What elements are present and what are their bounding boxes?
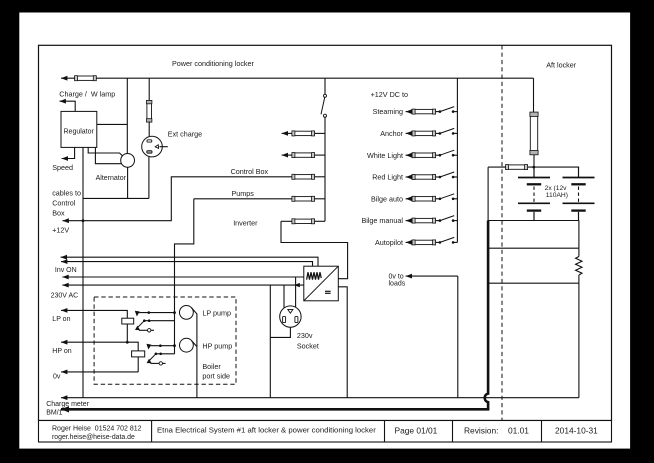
wire: shunt top link [578, 221, 580, 249]
svg-text:Steaming: Steaming [373, 107, 403, 116]
svg-text:HP on: HP on [52, 348, 71, 355]
svg-text:Control Box: Control Box [231, 167, 269, 176]
node: LP pump junction [173, 311, 176, 314]
fuse: battery main [530, 112, 537, 154]
svg-text:230v: 230v [297, 331, 313, 340]
title block grid [39, 421, 612, 443]
arrow: Autopilot [406, 240, 412, 245]
wire: charge lamp [60, 101, 76, 111]
svg-text:roger.heise@heise-data.de: roger.heise@heise-data.de [52, 434, 135, 441]
wire: regulator +12V drop [82, 147, 84, 397]
svg-text:LP pump: LP pump [202, 309, 231, 318]
contact K1 common [135, 311, 140, 317]
node: +12V junction [82, 219, 85, 222]
wire: battery bottom bus [488, 220, 579, 222]
svg-text:Aft locker: Aft locker [546, 61, 577, 70]
wire: speed output [62, 147, 75, 158]
svg-text:0v to: 0v to [389, 273, 404, 280]
wire: 0v line [61, 371, 138, 373]
wire: BM/1 heavy line [61, 408, 489, 411]
relay coil K1 [122, 318, 134, 324]
wire: battery top bus [488, 166, 579, 168]
wire: socket return drop [270, 327, 290, 337]
fuse: White Light [412, 153, 435, 157]
arrow: charge lamp [60, 99, 66, 104]
fuse: main +12V bus fuse [75, 76, 96, 80]
wire: fuse to ext socket [148, 122, 150, 137]
wire: White Light feed [406, 154, 413, 156]
switch: Autopilot [435, 241, 440, 243]
wire: fuse to battery bus [533, 155, 535, 168]
wire: inverter ON line 2 [61, 262, 313, 267]
battery B1 top lead [533, 167, 535, 177]
wire: ext socket return [148, 157, 150, 199]
wire: aft feed drop [533, 78, 535, 112]
svg-text:Charge / W lamp: Charge / W lamp [59, 90, 115, 99]
wire: K2 coil return [137, 357, 139, 372]
svg-text:Autopilot: Autopilot [375, 238, 403, 247]
arrow: Bilge auto [406, 196, 412, 201]
arrow: 0v [61, 370, 67, 375]
fuse: inverter [292, 219, 314, 223]
arrow: Anchor [406, 131, 412, 136]
arrow: inverter ON 2 [61, 259, 67, 264]
switch: Steaming [435, 111, 440, 113]
arrow: Bilge manual [406, 218, 412, 223]
switch: battery master [324, 94, 327, 97]
arrow: top bus to loads [61, 76, 67, 81]
wire: left bus lower [324, 117, 326, 221]
wire: regulator sense to bus drop [97, 123, 128, 125]
locker divider dashed line [501, 45, 503, 420]
arrow: charge meter [61, 395, 67, 400]
svg-text:+12V: +12V [52, 226, 69, 235]
fuse: Bilge auto [412, 197, 435, 201]
wire: alternator output [127, 167, 129, 198]
arrow: +12V [63, 218, 69, 223]
arrow: 230VAC neutral [62, 283, 68, 288]
wire: bus drop to alternator [126, 78, 128, 154]
svg-text:Speed: Speed [52, 163, 73, 172]
battery B1 bottom lead [533, 212, 535, 221]
pump motor M1 [180, 306, 194, 320]
wire: inverter DC input [281, 221, 348, 278]
fuse: pumps [292, 197, 314, 201]
node: K1 return junction [126, 341, 129, 344]
svg-text:230V AC: 230V AC [51, 293, 79, 300]
wire: left bus upper [324, 78, 326, 94]
contact K1 NO [139, 329, 154, 331]
svg-text:White Light: White Light [367, 151, 403, 160]
wire: right bus [456, 78, 458, 242]
inverter U1 [304, 266, 339, 301]
wire: spare feed 1 [282, 132, 293, 134]
arrow: spare feed 1 [282, 131, 288, 136]
switch: Anchor [435, 132, 440, 134]
wire: inverter ON line 1 [61, 257, 318, 266]
svg-text:HP pump: HP pump [202, 341, 232, 350]
arrow: Red Light [406, 175, 412, 180]
svg-text:2x (12v: 2x (12v [545, 185, 568, 192]
node: battery 1 tap [532, 166, 535, 169]
wire: battery negative heavy with hop [485, 221, 488, 410]
contact K2 NC [156, 353, 175, 355]
wire: inverter feed stub [281, 220, 292, 222]
wire: cables to control box [83, 197, 149, 199]
battery B2 top lead [578, 167, 580, 177]
svg-text:Page 01/01: Page 01/01 [395, 426, 438, 436]
wire: +12V rail [63, 177, 293, 221]
svg-text:+12V DC to: +12V DC to [371, 90, 408, 99]
fuse: spare feed 1 [292, 131, 314, 135]
svg-text:110AH): 110AH) [546, 192, 568, 199]
wire: LP pump output [192, 308, 197, 398]
svg-text:cables to: cables to [52, 189, 81, 198]
svg-text:Boiler: Boiler [202, 362, 221, 371]
wire: charge meter line [61, 397, 579, 399]
svg-text:Ext charge: Ext charge [168, 130, 202, 139]
wire: socket return [269, 285, 271, 398]
svg-text:port side: port side [202, 372, 230, 381]
wire: 230VAC neutral bus [62, 284, 303, 286]
fuse: Bilge manual [412, 218, 435, 222]
fuse: Anchor [412, 131, 435, 135]
contact K1 NC [144, 320, 174, 322]
arrow: spare feed 2 [282, 153, 288, 158]
battery B2 bottom lead [578, 212, 580, 221]
contact K2 NO [150, 362, 165, 364]
fuse: battery link [506, 165, 527, 169]
fuse: Autopilot [412, 240, 435, 244]
svg-text:Anchor: Anchor [380, 129, 403, 138]
pump motor M2 [180, 338, 194, 352]
arrow: 230VAC live [62, 275, 68, 280]
wire: K1 coil return [126, 324, 128, 342]
wire: top +12V bus [61, 77, 534, 79]
svg-text:Power conditioning locker: Power conditioning locker [172, 59, 255, 68]
wire: pumps supply drop [175, 199, 194, 354]
svg-text:0v: 0v [53, 374, 61, 381]
svg-text:Bilge manual: Bilge manual [361, 216, 403, 225]
svg-text:Socket: Socket [297, 342, 319, 351]
svg-text:Red Light: Red Light [372, 173, 403, 182]
wire: Steaming feed [406, 111, 413, 113]
contact K2 common [146, 344, 151, 350]
fuse: ext charge [147, 101, 152, 122]
wire: regulator field 1 [88, 147, 123, 156]
svg-text:Inverter: Inverter [233, 219, 258, 228]
wire: ext charge feed [148, 78, 150, 101]
wire: 230VAC live bus [62, 276, 303, 278]
switch: Red Light [435, 176, 440, 178]
fuse: Steaming [412, 109, 435, 113]
wire: regulator field 2 [95, 147, 121, 163]
svg-text:BM/1: BM/1 [46, 409, 62, 416]
wire: socket live tap [295, 277, 297, 308]
svg-text:01.01: 01.01 [508, 426, 529, 436]
ext charge socket X1 [142, 136, 163, 157]
wire: control box fuse stub [314, 176, 325, 178]
svg-text:Box: Box [52, 209, 65, 218]
svg-text:Alternator: Alternator [96, 175, 127, 182]
regulator box [61, 111, 97, 147]
wire: Red Light feed [406, 176, 413, 178]
wire: shunt bottom link [488, 282, 579, 284]
svg-text:Pumps: Pumps [232, 189, 255, 198]
resistor: battery monitor shunt [578, 248, 580, 256]
arrow: speed [62, 156, 68, 161]
wire: spare feed 2 [282, 154, 293, 156]
wire: battery bus left drop [487, 167, 489, 220]
wire: HP on [61, 342, 138, 351]
battery B2 plates [563, 177, 595, 179]
svg-text:Regulator: Regulator [64, 129, 95, 136]
switch: Bilge manual [435, 220, 440, 222]
wire: socket neutral tap [283, 285, 285, 308]
svg-text:Revision:: Revision: [464, 426, 498, 436]
svg-text:Etna Electrical System #1 aft: Etna Electrical System #1 aft locker & p… [157, 426, 376, 435]
wire: Bilge manual feed [406, 220, 413, 222]
arrow: HP on [61, 340, 67, 345]
wire: HP pump output [192, 341, 197, 347]
wire: shunt to 0v line [578, 283, 580, 398]
svg-text:2014-10-31: 2014-10-31 [555, 426, 598, 436]
arrow: White Light [406, 153, 412, 158]
arrow: LP on [61, 308, 67, 313]
fuse: Red Light [412, 175, 435, 179]
wire: Anchor feed [406, 132, 413, 134]
boiler enclosure dashed box [94, 297, 236, 384]
switch: Bilge auto [435, 198, 440, 200]
wire: pumps feed [194, 198, 292, 200]
arrow: BM/1 [61, 406, 69, 412]
alternator G1 [121, 154, 135, 168]
wire: LP on [61, 310, 127, 318]
socket outlet X2 [280, 306, 301, 327]
svg-text:Roger Heise 01524 702 812: Roger Heise 01524 702 812 [52, 426, 142, 433]
fuse: spare feed 2 [292, 153, 314, 157]
battery B1 plates [518, 177, 550, 179]
node: HP pump junction [173, 344, 176, 347]
svg-text:LP on: LP on [52, 316, 70, 323]
switch: White Light [435, 154, 440, 156]
wire: ext socket pin stub [160, 146, 168, 148]
drawing border frame [39, 45, 612, 420]
fuse: control box [292, 175, 314, 179]
arrow: neutral flow mark [294, 283, 300, 287]
wire: 0v to loads [406, 275, 458, 277]
arrow: inverter ON 1 [61, 255, 67, 260]
arrow: Steaming [406, 109, 412, 114]
wire: Bilge auto feed [406, 198, 413, 200]
svg-text:Control: Control [52, 199, 76, 208]
svg-text:loads: loads [389, 281, 406, 288]
svg-text:Inv ON: Inv ON [55, 267, 77, 274]
relay coil K2 [132, 351, 145, 357]
wire: Autopilot feed [406, 241, 413, 243]
svg-text:Bilge auto: Bilge auto [371, 194, 403, 203]
arrow: 0v to loads [406, 274, 412, 279]
wire: inverter DC return [338, 287, 347, 398]
